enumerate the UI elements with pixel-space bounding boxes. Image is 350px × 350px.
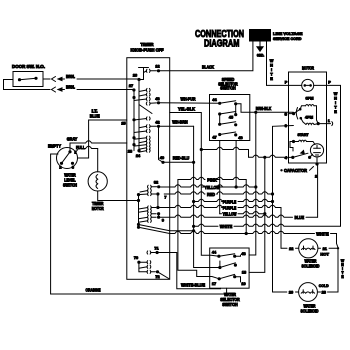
svg-text:44: 44 xyxy=(212,251,217,255)
svg-text:9: 9 xyxy=(162,219,164,223)
wire sel 19 stub xyxy=(235,277,241,282)
wire S lead xyxy=(289,113,294,115)
svg-text:BLACK: BLACK xyxy=(202,65,215,70)
wire timer71 whiteblue xyxy=(157,253,220,289)
wire P row xyxy=(267,84,327,86)
wire white service lead xyxy=(266,41,268,85)
svg-text:GND.: GND. xyxy=(257,53,265,58)
svg-text:21: 21 xyxy=(323,247,327,251)
terminal 72 xyxy=(139,270,170,279)
timer bus A xyxy=(133,90,135,151)
svg-text:SWITCH: SWITCH xyxy=(222,302,238,307)
speed selector box xyxy=(210,95,250,141)
wire timer motor bottom xyxy=(98,191,139,201)
svg-text:BRN.: BRN. xyxy=(66,84,75,89)
label wh-brn xyxy=(172,120,188,125)
timer contact r6 xyxy=(132,136,150,139)
svg-text:GRAY: GRAY xyxy=(67,136,78,141)
riser white2 xyxy=(245,180,247,234)
timer contact r13 xyxy=(139,209,152,212)
timer contact r15 xyxy=(139,219,152,222)
label white bus vertical xyxy=(334,92,338,114)
label white2 xyxy=(316,231,329,236)
timer contact r4 xyxy=(134,117,150,120)
svg-text:TIMER: TIMER xyxy=(141,42,155,47)
terminal 9 xyxy=(148,212,165,222)
svg-text:PURPLE: PURPLE xyxy=(223,205,237,210)
svg-text:WHITE-BLUE: WHITE-BLUE xyxy=(181,282,205,287)
wire hot 21 xyxy=(318,247,339,249)
svg-text:72: 72 xyxy=(155,275,159,279)
water selector terminals xyxy=(212,251,246,286)
coil start xyxy=(292,140,315,145)
svg-text:4: 4 xyxy=(285,156,288,160)
wire red xyxy=(164,192,272,194)
svg-text:RED-BLU: RED-BLU xyxy=(173,156,190,161)
timer motor label xyxy=(92,201,105,211)
water level switch P1 xyxy=(57,148,78,170)
svg-text:E: E xyxy=(334,110,337,114)
riser speed R xyxy=(235,141,238,189)
wire pink xyxy=(178,177,246,179)
svg-text:BLUE: BLUE xyxy=(90,114,100,119)
motor 4 terminal xyxy=(285,156,295,160)
label brn-blk xyxy=(256,106,272,111)
wire door switch left loop xyxy=(4,80,51,90)
wire purple2 xyxy=(158,205,281,207)
svg-text:SWITCH: SWITCH xyxy=(63,183,77,188)
svg-text:E: E xyxy=(270,77,273,81)
wire yel-blk xyxy=(170,113,289,159)
svg-text:PINK: PINK xyxy=(207,177,217,182)
svg-text:WH-PUR: WH-PUR xyxy=(181,96,197,101)
riser sel48 xyxy=(249,111,257,255)
wire hot 22 xyxy=(281,247,299,249)
ground xyxy=(257,41,265,58)
wire gray xyxy=(70,141,127,152)
motor S label xyxy=(285,112,288,116)
svg-text:3: 3 xyxy=(72,166,74,170)
label yellow xyxy=(205,185,221,190)
svg-text:3: 3 xyxy=(285,124,287,128)
cold solenoid L2 xyxy=(299,283,318,302)
svg-text:SWITCH: SWITCH xyxy=(220,86,236,91)
timer blade diag xyxy=(139,105,152,114)
water selector contacts xyxy=(217,254,237,281)
label yellow2 xyxy=(223,212,238,217)
timer contact r9 xyxy=(139,146,150,149)
terminal 12 xyxy=(144,65,161,73)
svg-text:CAPACITOR: CAPACITOR xyxy=(284,168,308,173)
timer contact r10 xyxy=(137,149,150,152)
svg-text:DIAGRAM: DIAGRAM xyxy=(204,38,239,49)
wire lt blue xyxy=(78,120,127,158)
motor 3 label xyxy=(285,124,287,128)
timer motor bus xyxy=(137,193,148,227)
terminal 32 xyxy=(148,181,161,189)
wire brn 2 xyxy=(58,88,134,91)
svg-text:HOT: HOT xyxy=(320,251,329,256)
label red xyxy=(207,192,215,197)
timer box xyxy=(127,58,170,280)
label brn 1 xyxy=(66,74,75,79)
svg-text:47: 47 xyxy=(212,136,216,140)
capacitor C1 xyxy=(310,144,323,157)
svg-text:22: 22 xyxy=(289,247,293,251)
water selector label xyxy=(220,292,240,307)
svg-text:MOTOR: MOTOR xyxy=(302,65,315,70)
svg-text:70: 70 xyxy=(134,256,138,260)
terminal 43 xyxy=(146,97,160,105)
wire full lead xyxy=(76,146,98,172)
svg-text:W: W xyxy=(334,92,338,96)
terminal 28 xyxy=(128,150,132,154)
svg-text:RED: RED xyxy=(207,192,215,197)
svg-text:WH-BRN: WH-BRN xyxy=(172,120,188,125)
speed selector terminals xyxy=(212,98,242,140)
label empty xyxy=(48,144,61,149)
wire cold 20 lead xyxy=(273,291,299,293)
svg-text:28: 28 xyxy=(128,150,132,154)
svg-text:43: 43 xyxy=(155,97,159,101)
motor centrifugal blade xyxy=(293,151,313,159)
svg-text:25: 25 xyxy=(121,122,125,126)
svg-text:BLUE: BLUE xyxy=(295,215,305,220)
svg-text:EMPTY: EMPTY xyxy=(48,144,61,149)
svg-text:SOLENOID: SOLENOID xyxy=(301,309,319,314)
label hot xyxy=(320,251,329,256)
timer contact r7 xyxy=(139,140,150,143)
wire red-blu xyxy=(163,161,194,163)
svg-text:19: 19 xyxy=(241,282,245,286)
svg-text:32: 32 xyxy=(154,181,158,185)
label lt blue xyxy=(90,109,100,119)
motor label xyxy=(302,65,315,70)
svg-text:E: E xyxy=(341,275,344,279)
svg-text:17: 17 xyxy=(212,282,216,286)
svg-text:KNOB-PUSH OFF: KNOB-PUSH OFF xyxy=(131,48,164,53)
riser sel18 xyxy=(249,157,266,272)
timer contact r14 xyxy=(139,216,161,219)
svg-text:W: W xyxy=(270,59,274,63)
svg-text:BRN.: BRN. xyxy=(66,74,75,79)
timer diag exit 1 xyxy=(137,223,195,233)
motor P left xyxy=(285,81,288,85)
svg-text:DOOR SW. N.O.: DOOR SW. N.O. xyxy=(12,64,45,69)
svg-text:BRN-BLK: BRN-BLK xyxy=(256,106,272,111)
riser pink xyxy=(178,180,219,279)
speed selector contacts xyxy=(218,101,237,137)
svg-text:42: 42 xyxy=(155,120,159,124)
wire white1 xyxy=(194,224,341,226)
svg-text:7: 7 xyxy=(164,196,166,200)
label full xyxy=(76,145,85,150)
water selector box xyxy=(210,248,249,288)
svg-text:44: 44 xyxy=(212,98,217,102)
label 21 xyxy=(323,247,327,251)
svg-text:P: P xyxy=(328,80,331,84)
svg-text:24: 24 xyxy=(136,154,141,158)
terminal 70 xyxy=(134,256,151,272)
terminal 7 xyxy=(148,192,167,207)
label 20 xyxy=(289,291,293,295)
label wh-pur xyxy=(181,96,197,101)
svg-text:2: 2 xyxy=(59,166,61,170)
connector bottom xyxy=(52,87,56,92)
wire cap bottom xyxy=(315,157,319,217)
motor P right xyxy=(328,80,331,84)
svg-text:START: START xyxy=(298,133,310,137)
timer bus B xyxy=(138,80,140,151)
label purple1 xyxy=(223,199,237,204)
label 23 xyxy=(322,291,326,295)
svg-text:27: 27 xyxy=(129,84,133,88)
wire blue xyxy=(159,215,318,217)
wire orange xyxy=(51,288,227,294)
wire yellow xyxy=(159,185,256,187)
terminal 24 xyxy=(136,154,141,158)
label brn 2 xyxy=(66,84,75,89)
wire empty lead xyxy=(51,154,58,294)
speed selector label xyxy=(218,77,238,91)
timer contact r12 xyxy=(139,206,160,209)
svg-text:2: 2 xyxy=(315,175,317,179)
terminal 71 xyxy=(147,246,159,254)
start loop xyxy=(290,142,294,152)
title text xyxy=(195,29,244,49)
wire black service lead xyxy=(159,41,253,71)
hot solenoid L1 xyxy=(299,239,318,258)
label orange xyxy=(86,288,101,293)
wire white bus xyxy=(327,85,341,226)
svg-text:I: I xyxy=(335,101,336,105)
svg-text:H: H xyxy=(270,64,273,68)
svg-text:YELLOW: YELLOW xyxy=(223,212,238,217)
timer contact r11 xyxy=(140,189,151,192)
svg-text:YEL-BLK: YEL-BLK xyxy=(178,107,196,112)
svg-text:WHITE: WHITE xyxy=(220,224,233,229)
svg-text:4PM: 4PM xyxy=(305,116,313,120)
terminal 42 xyxy=(139,120,160,128)
svg-text:12: 12 xyxy=(155,65,159,69)
wire white2 to cold xyxy=(317,234,338,293)
motor box xyxy=(289,72,327,163)
label pink xyxy=(207,177,217,182)
label black xyxy=(202,65,215,70)
riser hot22 xyxy=(280,208,282,249)
water level switch label xyxy=(63,173,77,188)
terminal 49 xyxy=(160,156,165,164)
label white1 xyxy=(220,224,233,229)
label start xyxy=(298,133,310,137)
terminal 25 xyxy=(121,118,135,125)
line voltage service cord xyxy=(250,30,271,42)
capacitor label xyxy=(280,167,313,174)
wire purple1 xyxy=(194,199,273,201)
wire sel 48 stub xyxy=(235,255,241,256)
svg-text:23: 23 xyxy=(322,291,326,295)
service cord label xyxy=(273,31,303,41)
label gray xyxy=(67,136,78,141)
cold solenoid label xyxy=(301,304,319,314)
svg-text:SOLENOID: SOLENOID xyxy=(302,264,320,269)
timer diag exit 2 xyxy=(137,226,170,234)
svg-text:S: S xyxy=(285,112,288,116)
wire white2 xyxy=(170,231,334,235)
svg-text:I: I xyxy=(271,68,272,72)
svg-text:6PM: 6PM xyxy=(306,97,314,101)
wire brn-blk xyxy=(236,104,294,113)
label 22 xyxy=(289,247,293,251)
svg-text:20: 20 xyxy=(289,291,293,295)
connector top xyxy=(52,77,56,82)
label blue xyxy=(295,215,305,220)
timer contact r16 xyxy=(139,265,151,268)
svg-text:WHITE: WHITE xyxy=(316,231,329,236)
timer contact r5 xyxy=(134,129,150,132)
timer contact r2 xyxy=(132,93,150,99)
label 4pm xyxy=(305,116,313,120)
label white-blue xyxy=(181,282,205,287)
wire door switch right xyxy=(43,78,50,80)
label cold xyxy=(319,283,329,288)
motor protector xyxy=(302,79,314,91)
svg-text:P: P xyxy=(285,81,288,85)
label white vertical xyxy=(270,59,274,81)
wire wh-brn xyxy=(159,125,194,127)
svg-text:T: T xyxy=(270,73,273,77)
svg-text:ORANGE: ORANGE xyxy=(86,288,101,293)
label white right vertical xyxy=(341,259,345,279)
riser motor3 cold xyxy=(271,126,294,293)
motor S blade xyxy=(292,108,302,120)
timer label xyxy=(131,42,164,53)
wire wh-pur xyxy=(159,102,220,105)
svg-text:18: 18 xyxy=(242,271,246,275)
coil 4pm xyxy=(301,118,318,124)
door switch label xyxy=(12,64,45,69)
terminal 26 xyxy=(133,74,141,82)
wire brn 1 xyxy=(58,77,139,80)
svg-text:45: 45 xyxy=(229,116,233,120)
riser wh-brn xyxy=(192,126,220,267)
timer bus 42-49 xyxy=(159,126,164,162)
riser speed L xyxy=(219,141,221,214)
wire yellow2 xyxy=(220,212,265,214)
svg-text:PURPLE: PURPLE xyxy=(223,199,237,204)
svg-text:46: 46 xyxy=(238,136,242,140)
hot solenoid label xyxy=(302,259,320,269)
timer contact T xyxy=(139,68,149,80)
svg-text:H: H xyxy=(334,97,337,101)
riser yel-blk to sel44 xyxy=(201,150,219,257)
svg-text:1: 1 xyxy=(328,119,330,123)
svg-text:SERVICE CORD: SERVICE CORD xyxy=(273,36,302,41)
svg-text:26: 26 xyxy=(133,74,137,78)
svg-text:48: 48 xyxy=(241,252,245,256)
timer motor M1 xyxy=(88,172,107,191)
coil 6pm xyxy=(300,104,318,123)
label purple2 xyxy=(223,205,237,210)
label yel-blk xyxy=(178,107,196,112)
svg-text:MOTOR: MOTOR xyxy=(92,206,105,211)
terminal 27 xyxy=(129,84,150,92)
svg-text:T: T xyxy=(334,106,337,110)
svg-text:YELLOW: YELLOW xyxy=(205,185,221,190)
label red-blu xyxy=(173,156,190,161)
svg-text:71: 71 xyxy=(154,246,158,250)
svg-text:COLD: COLD xyxy=(319,283,329,288)
door switch DS1 xyxy=(13,72,43,87)
timer contact r8 xyxy=(132,143,150,146)
label 6pm xyxy=(306,97,314,101)
svg-text:49: 49 xyxy=(160,156,164,160)
timer contact r3 xyxy=(134,97,150,100)
wire 4pm out xyxy=(317,119,333,126)
